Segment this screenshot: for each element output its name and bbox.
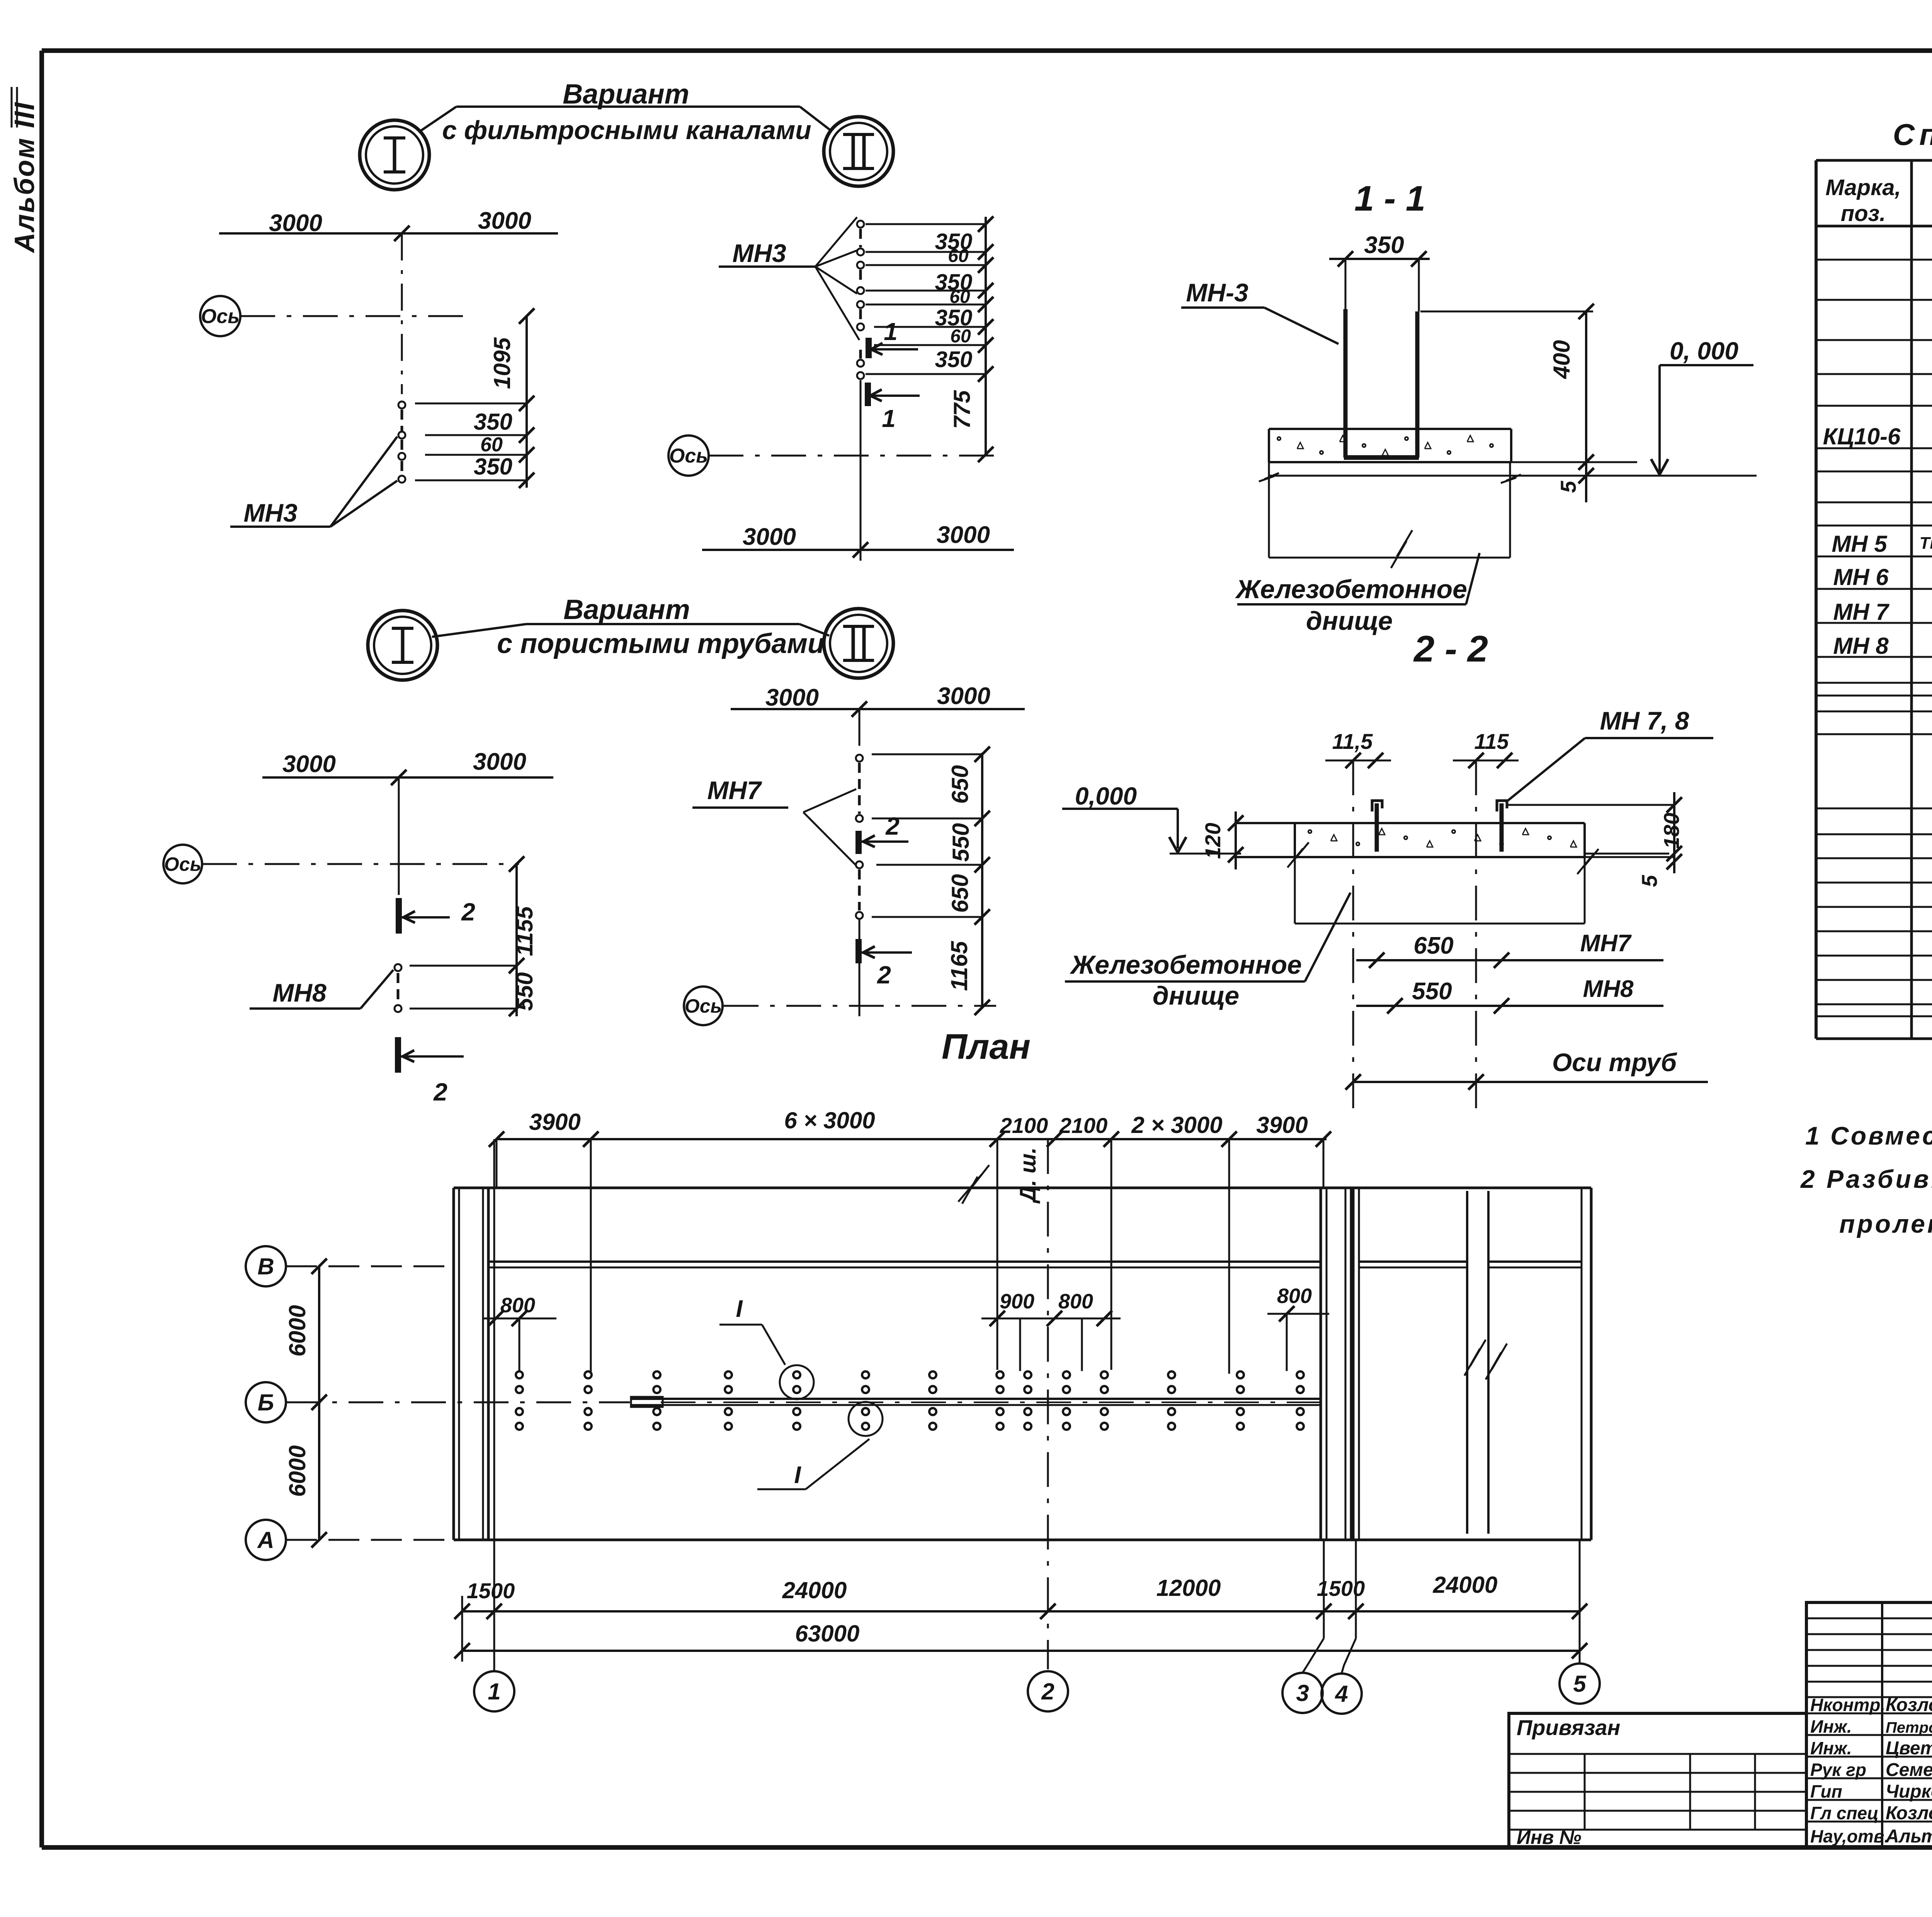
pipe axes dash-dot verticals (section 2-2): [1353, 760, 1476, 1108]
svg-text:I: I: [736, 1296, 743, 1322]
svg-text:МН 8: МН 8: [1833, 633, 1889, 659]
base outline below slab (section 2-2): [1295, 857, 1585, 924]
svg-text:Ось: Ось: [669, 445, 708, 467]
title block middle sub-table signatures: [1806, 1602, 1932, 1847]
svg-text:115: 115: [1474, 729, 1509, 754]
svg-text:11,5: 11,5: [1332, 729, 1373, 754]
svg-text:2: 2: [433, 1078, 447, 1106]
svg-text:Ось: Ось: [164, 854, 201, 875]
svg-text:Железобетонное: Железобетонное: [1235, 575, 1467, 604]
svg-text:3000: 3000: [765, 684, 819, 711]
vertical dimension line 1095/350/60/350 (diagram 1): [415, 308, 534, 488]
svg-text:6 × 3000: 6 × 3000: [784, 1107, 875, 1133]
svg-text:60: 60: [950, 326, 971, 347]
svg-text:План: План: [942, 1027, 1031, 1067]
axis circle Ось with dash-dot line (diagram 4): [684, 920, 996, 1025]
svg-text:350: 350: [474, 409, 512, 435]
svg-text:днище: днище: [1306, 606, 1393, 636]
view marker circle II (variant with filter channels): [824, 117, 893, 186]
svg-text:МН8: МН8: [272, 978, 327, 1007]
svg-text:А: А: [257, 1527, 274, 1553]
centerline top segment (diagram 4): [859, 709, 861, 746]
svg-text:поз.: поз.: [1841, 201, 1886, 226]
svg-text:2100: 2100: [1059, 1113, 1108, 1138]
svg-text:Привязан: Привязан: [1517, 1715, 1620, 1740]
svg-text:180: 180: [1659, 813, 1684, 849]
svg-text:60: 60: [480, 434, 503, 456]
svg-text:12000: 12000: [1156, 1575, 1221, 1601]
svg-text:5: 5: [1637, 875, 1662, 887]
svg-text:800: 800: [500, 1294, 535, 1317]
break marks in right plan section: [962, 1177, 1507, 1379]
svg-text:24000: 24000: [1433, 1572, 1498, 1598]
label Оси труб with dimension line (section 2-2): [1345, 1048, 1708, 1090]
label МН8 with leader (diagram 3): [250, 970, 393, 1009]
dimension 550 МН8 row (section 2-2): [1356, 976, 1663, 1014]
axis 4 leader and circle 4: [1321, 1540, 1362, 1714]
svg-text:Нконтр.: Нконтр.: [1810, 1695, 1885, 1715]
axis 3 leader and circle 3: [1282, 1540, 1324, 1713]
axis circle Б with dash-dot line: [246, 1382, 1320, 1422]
svg-text:Чирков: Чирков: [1886, 1781, 1932, 1802]
svg-text:Вариант: Вариант: [563, 594, 690, 625]
dimension 650 МН7 row (section 2-2): [1356, 930, 1663, 968]
section cut mark 2 (upper, diagram 3): [399, 898, 475, 934]
label МН7 with fan leaders (diagram 4): [692, 776, 856, 866]
axis circle Ось with dash-dot line (diagram 1): [200, 296, 469, 336]
svg-text:6000: 6000: [284, 1445, 310, 1497]
embedded anchor symbols rows in plan: [516, 1371, 1304, 1430]
plan bottom dimension row 1500/24000/12000/1500/24000: [454, 1572, 1587, 1662]
svg-text:Цветкова: Цветкова: [1886, 1738, 1932, 1759]
svg-text:550: 550: [948, 823, 974, 862]
svg-text:350: 350: [1364, 232, 1404, 259]
svg-text:1165: 1165: [946, 941, 972, 991]
svg-text:Инж.: Инж.: [1810, 1716, 1852, 1737]
section cut mark 2 (upper, diagram 4): [859, 812, 908, 854]
svg-text:с фильтросными каналами: с фильтросными каналами: [442, 116, 811, 145]
embed anchor stack with dashed centerline (diagram 2): [857, 221, 864, 561]
elevation mark 0,000 (section 2-2): [1062, 782, 1186, 852]
svg-text:3900: 3900: [529, 1109, 580, 1135]
svg-text:800: 800: [1277, 1284, 1312, 1308]
svg-text:днище: днище: [1153, 981, 1239, 1010]
dimension 3000 3000 top of diagram 3: [262, 748, 553, 785]
svg-text:5: 5: [1573, 1671, 1587, 1697]
left vertical dimension 6000/6000: [284, 1259, 327, 1548]
svg-text:2: 2: [1041, 1679, 1054, 1704]
anchor stack with dashed centerline (diagram 4): [856, 755, 863, 919]
svg-text:60: 60: [948, 246, 969, 266]
svg-text:МН 7: МН 7: [1833, 599, 1889, 625]
svg-text:3000: 3000: [473, 748, 526, 775]
svg-text:ТП 902-2-428.81КЖИ И3007исп02: ТП 902-2-428.81КЖИ И3007исп02: [1920, 534, 1932, 553]
svg-text:63000: 63000: [795, 1621, 860, 1647]
note Вариант с пористыми трубами with leader lines: [432, 594, 829, 659]
svg-text:1: 1: [882, 405, 896, 432]
anchor circles on dashed line (diagram 3): [395, 964, 401, 1012]
svg-text:МН3: МН3: [243, 498, 297, 527]
svg-text:1: 1: [884, 318, 898, 345]
plan top dimension row 3900/6x3000/2100/2100/2x3000/3900: [489, 1107, 1331, 1374]
svg-text:Инв №: Инв №: [1517, 1827, 1582, 1848]
steel channel МН-3 U-profile (section 1-1): [1344, 309, 1419, 458]
svg-text:800: 800: [1058, 1290, 1093, 1313]
section cut mark 2 (lower, diagram 3): [398, 1037, 464, 1106]
axis 5 vertical and circle 5: [1560, 1540, 1600, 1704]
svg-text:МН 7, 8: МН 7, 8: [1600, 706, 1689, 735]
dimension 11,5 and 115 (section 2-2): [1325, 729, 1519, 768]
svg-text:МН3: МН3: [732, 239, 786, 267]
svg-text:120: 120: [1201, 823, 1225, 859]
axis 2 dash-dot vertical and Д.ш. label: [958, 1139, 1048, 1669]
view marker circle II (variant with porous pipes): [824, 609, 893, 678]
svg-text:3000: 3000: [937, 522, 990, 548]
svg-text:900: 900: [1000, 1290, 1034, 1313]
section marker circled I upper with label: [719, 1296, 814, 1399]
ground level line (section 2-2): [1170, 853, 1241, 855]
svg-text:Семенова: Семенова: [1886, 1760, 1932, 1780]
dimension 120 (section 2-2): [1201, 811, 1243, 869]
svg-text:2 - 2: 2 - 2: [1413, 628, 1488, 670]
svg-text:775: 775: [949, 390, 975, 429]
svg-text:Спецификация элементов на б: Спецификация элементов на блок: [1893, 117, 1932, 151]
label Железобетонное днище with leader (section 1-1): [1235, 553, 1480, 636]
svg-text:2 × 3000: 2 × 3000: [1131, 1112, 1222, 1138]
svg-text:0,000: 0,000: [1075, 782, 1137, 810]
svg-text:650: 650: [1413, 932, 1453, 959]
svg-text:КЦ10-6: КЦ10-6: [1823, 424, 1901, 449]
svg-text:4: 4: [1335, 1681, 1348, 1707]
elevation mark 0,000 (section 1-1): [1651, 337, 1753, 475]
channel double line along axis Б: [631, 1397, 1320, 1407]
concrete slab with texture (section 2-2): [1236, 823, 1599, 874]
svg-text:Д. ш.: Д. ш.: [1015, 1147, 1041, 1204]
svg-text:2100: 2100: [1000, 1113, 1048, 1138]
svg-text:1: 1: [488, 1679, 500, 1704]
axis circle Ось with dash-dot line (diagram 2): [668, 435, 1000, 476]
svg-text:Козловичер: Козловичер: [1886, 1803, 1932, 1823]
svg-text:Рук гр: Рук гр: [1810, 1760, 1866, 1780]
svg-text:2: 2: [877, 961, 891, 989]
section cut mark 1 (lower, diagram 2): [868, 383, 920, 432]
svg-text:1 - 1: 1 - 1: [1354, 179, 1425, 218]
label МН3 with fan leaders (diagram 2): [719, 217, 859, 340]
specification table grid: [1816, 160, 1932, 1039]
svg-text:Альбом III: Альбом III: [9, 101, 40, 253]
concrete bottom slab with texture (section 1-1): [1269, 429, 1511, 462]
svg-text:3000: 3000: [937, 683, 990, 709]
vertical dimension 1155/550 (diagram 3): [410, 856, 537, 1016]
vertical dimension 650/550/650/1165 (diagram 4): [872, 747, 990, 1015]
dimension 180 and 5 (section 2-2): [1507, 792, 1684, 887]
svg-text:1500: 1500: [467, 1579, 515, 1603]
centerline of diagram 3: [398, 777, 400, 895]
dimension 900 800 middle inside plan: [981, 1290, 1121, 1371]
svg-text:Козловичер: Козловичер: [1886, 1695, 1932, 1715]
table header texts: [1825, 172, 1932, 226]
axis circle А with dash line: [246, 1520, 454, 1560]
svg-text:1 Совместно с данным см. л: 1 Совместно с данным см. л л КЖ- 46, 47.: [1805, 1121, 1932, 1150]
svg-text:350: 350: [474, 454, 512, 480]
svg-text:В: В: [257, 1254, 274, 1279]
svg-text:пролета аналогична данной.: пролета аналогична данной.: [1839, 1209, 1932, 1238]
svg-text:Петропавловская: Петропавловская: [1886, 1719, 1932, 1736]
svg-text:Инж.: Инж.: [1810, 1738, 1852, 1758]
svg-text:1095: 1095: [489, 337, 515, 389]
note Вариант с фильтросными каналами with leader lines: [419, 79, 832, 145]
svg-text:I: I: [794, 1462, 801, 1488]
dimension 800 right inside plan: [1267, 1284, 1329, 1371]
svg-text:Альтшуллер: Альтшуллер: [1885, 1826, 1932, 1847]
dimension 3000 3000 top of diagram 4: [731, 683, 1025, 717]
svg-text:МН7: МН7: [1580, 930, 1632, 957]
svg-text:5: 5: [1556, 481, 1580, 493]
svg-text:МН7: МН7: [707, 776, 762, 805]
svg-text:Б: Б: [258, 1390, 274, 1415]
svg-text:1155: 1155: [512, 906, 537, 956]
svg-text:650: 650: [947, 874, 973, 913]
axis circle В with dash line: [246, 1246, 454, 1286]
svg-text:Нау,отв.: Нау,отв.: [1810, 1826, 1889, 1846]
svg-text:Оси труб: Оси труб: [1552, 1048, 1677, 1077]
plan tank outline walls: [454, 1188, 1591, 1540]
axis circle Ось with dash-dot line (diagram 3): [163, 845, 519, 883]
section cut mark 2 (lower, diagram 4): [859, 939, 912, 989]
svg-text:400: 400: [1549, 340, 1575, 379]
view marker circle I (variant with porous pipes): [368, 611, 437, 680]
svg-text:с пористыми трубами: с пористыми трубами: [497, 628, 825, 659]
table rows content: [1823, 231, 1932, 1030]
svg-text:2 Разбивка закладных изделий: 2 Разбивка закладных изделий для среднег…: [1800, 1165, 1932, 1193]
svg-text:3000: 3000: [743, 524, 796, 550]
svg-text:МН 5: МН 5: [1832, 531, 1888, 557]
svg-text:3: 3: [1296, 1680, 1309, 1706]
svg-text:6000: 6000: [284, 1305, 310, 1356]
svg-text:24000: 24000: [782, 1577, 847, 1603]
svg-text:МН-3: МН-3: [1186, 278, 1248, 307]
label МН 7, 8 with leader (section 2-2): [1508, 706, 1713, 801]
svg-text:0, 000: 0, 000: [1670, 337, 1738, 365]
svg-text:650: 650: [947, 765, 973, 804]
svg-text:Марка,: Марка,: [1825, 175, 1901, 200]
view marker circle I (variant with filter channels): [360, 120, 429, 190]
vertical label Альбом III on left margin: [9, 87, 40, 253]
dimension 3000 3000 top of left МН3 diagram: [219, 208, 558, 241]
embedded channel hooks МН7,8 (section 2-2): [1372, 801, 1507, 852]
dimension 3000 3000 bottom of diagram 2: [702, 522, 1014, 558]
axis circle 2: [1028, 1671, 1068, 1711]
svg-text:Вариант: Вариант: [563, 79, 689, 110]
svg-text:550: 550: [512, 972, 537, 1011]
centerline of left МН3 diagram: [401, 233, 403, 394]
level line and 400/5 dimension (section 1-1): [1269, 304, 1757, 502]
svg-text:3000: 3000: [282, 751, 336, 777]
svg-text:МН8: МН8: [1583, 976, 1634, 1002]
label МН-3 with leader (section 1-1): [1181, 278, 1338, 344]
svg-text:Ось: Ось: [685, 995, 722, 1017]
svg-text:Гип: Гип: [1810, 1781, 1842, 1801]
embed anchor row (4 small circles) on centerline (diagram 1): [398, 401, 405, 483]
dimension 350 over channel (section 1-1): [1329, 232, 1430, 311]
dimension 800 left inside plan: [483, 1294, 556, 1371]
label МН3 with leader lines (diagram 1): [230, 437, 397, 527]
svg-text:Железобетонное: Железобетонное: [1070, 950, 1302, 980]
svg-text:350: 350: [935, 347, 973, 372]
section cut mark 1 (upper, diagram 2): [869, 318, 918, 358]
svg-text:Гл спец: Гл спец: [1810, 1803, 1879, 1823]
svg-text:60: 60: [949, 287, 970, 307]
svg-text:МН 6: МН 6: [1833, 564, 1889, 590]
svg-text:550: 550: [1412, 978, 1452, 1005]
label Железобетонное днище with leader (section 2-2): [1065, 893, 1350, 1010]
svg-text:3900: 3900: [1256, 1112, 1308, 1138]
title block left sub-table Привязан: [1509, 1713, 1806, 1848]
svg-text:2: 2: [461, 898, 475, 926]
svg-text:3000: 3000: [478, 208, 531, 234]
corridor wall line on axis В: [488, 1262, 1582, 1267]
underlying base outline with break marks (section 1-1): [1259, 462, 1521, 568]
svg-text:Ось: Ось: [201, 305, 240, 328]
section marker circled I lower with label: [757, 1402, 883, 1489]
svg-text:2: 2: [885, 812, 900, 840]
axis 1 vertical line and circle 1: [474, 1139, 514, 1711]
dimension stack 350/60 chain (diagram 2): [866, 216, 993, 462]
